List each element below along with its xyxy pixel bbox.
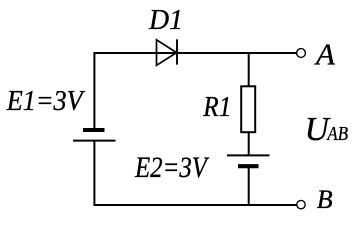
wire R1 to E2	[248, 132, 250, 156]
wire bottom horizontal (to terminal B)	[93, 204, 297, 206]
terminal A open circle	[297, 49, 306, 58]
battery E2 negative plate (short thick)	[238, 164, 259, 168]
terminal B open circle	[297, 200, 305, 208]
wire left vertical upper (top-left corner to E1)	[93, 52, 95, 129]
wire right branch upper (junction to R1)	[248, 53, 250, 87]
svg-text:R1: R1	[202, 92, 231, 123]
resistor R1 body	[241, 86, 255, 132]
svg-text:AB: AB	[326, 123, 349, 145]
diode D1 triangle (anode)	[157, 40, 177, 66]
wire left vertical lower (E1 to bottom-left corner)	[93, 141, 95, 206]
diode D1 cathode bar	[176, 39, 178, 64]
svg-text:E1=3V: E1=3V	[6, 86, 86, 117]
wire E2 to bottom wire	[248, 166, 250, 206]
wire top horizontal (node to terminal A)	[94, 52, 297, 54]
svg-text:B: B	[317, 185, 333, 214]
svg-text:D1: D1	[148, 5, 183, 36]
svg-text:A: A	[314, 37, 336, 72]
battery E2 positive plate (long thin)	[227, 154, 270, 156]
battery E1 positive plate (long thin)	[73, 140, 116, 142]
svg-text:E2=3V: E2=3V	[134, 152, 209, 184]
battery E1 negative plate (short thick)	[83, 128, 105, 132]
